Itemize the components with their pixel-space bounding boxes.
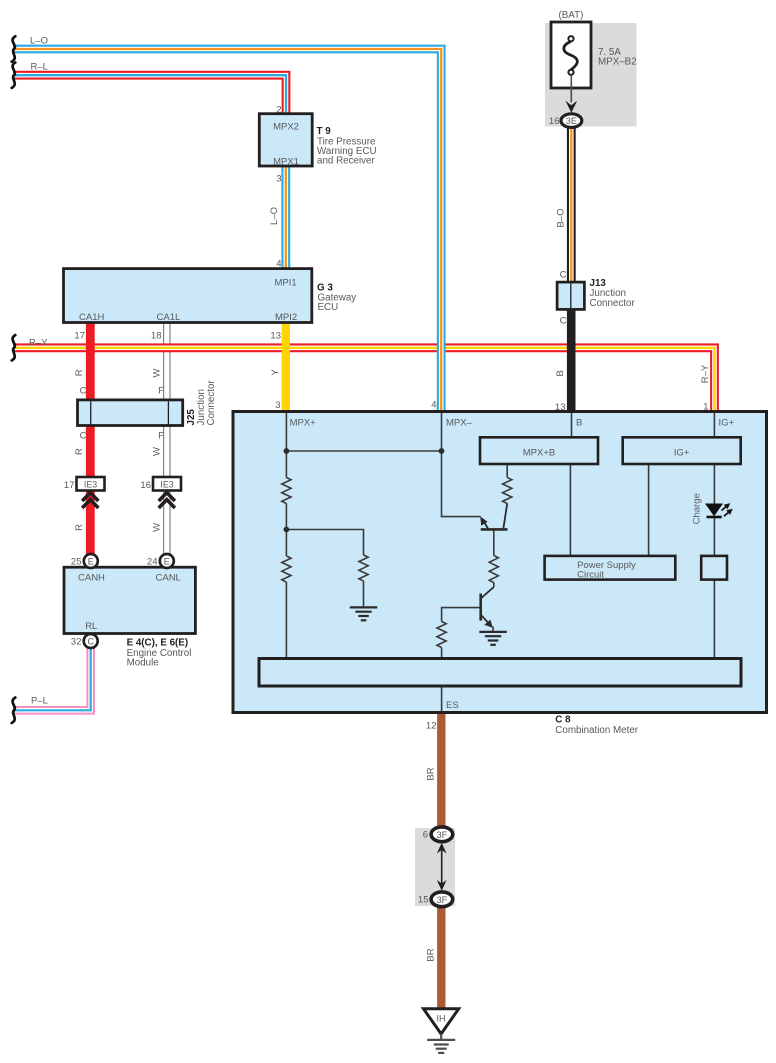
connector IE3 pin16 box: [153, 477, 181, 491]
svg-text:3F: 3F: [437, 895, 448, 905]
wire B from J13 to C8 pin13: [567, 309, 576, 414]
resistor R6 (Q2 base): [437, 622, 446, 648]
svg-text:Combination Meter: Combination Meter: [555, 725, 639, 736]
svg-text:3E: 3E: [566, 116, 577, 126]
arrow into connector 3E: [565, 101, 577, 113]
resistor R2 (MPX+ lower): [282, 556, 291, 582]
svg-text:CA1H: CA1H: [79, 312, 104, 323]
wire MPX+B to power supply: [569, 464, 571, 556]
wire BR from C8 ES pin12 to 3F pin6: [437, 712, 445, 829]
svg-text:BR: BR: [426, 948, 437, 961]
LED emission arrow 1: [722, 506, 728, 511]
wire L-O top horizontal to C8 MPX- pin4: [13, 49, 441, 413]
wire Q2 emitter to ground: [492, 627, 494, 632]
svg-text:IH: IH: [437, 1013, 446, 1023]
svg-text:J13: J13: [590, 278, 607, 289]
LED D1 charge triangle: [705, 504, 723, 517]
connector circle E pin24: [160, 554, 174, 568]
internal box power supply circuit: [545, 556, 676, 580]
continuation brace R-Y: [12, 335, 16, 360]
svg-text:MPI2: MPI2: [275, 312, 297, 323]
node MPX+ pin line: [285, 413, 287, 451]
svg-text:IG+: IG+: [674, 448, 690, 459]
svg-text:(BAT): (BAT): [559, 10, 584, 21]
svg-text:MPX1: MPX1: [273, 156, 299, 167]
junction connector J25 box: [78, 400, 183, 426]
resistor R3 (to ground): [359, 555, 368, 581]
connector oval 3F pin15: [431, 892, 453, 907]
wire Q1 collector chain: [493, 530, 495, 587]
svg-text:E 4(C), E 6(E): E 4(C), E 6(E): [127, 637, 189, 648]
svg-text:25: 25: [71, 557, 82, 568]
svg-text:3F: 3F: [437, 830, 448, 840]
wire R (CA1H) G3 pin17 to ECM pin25: [86, 322, 95, 555]
svg-text:13: 13: [270, 331, 281, 342]
fuse element symbol: [564, 36, 578, 75]
svg-text:MPX+B: MPX+B: [523, 448, 555, 459]
svg-text:C: C: [560, 316, 567, 327]
svg-text:B: B: [576, 418, 582, 429]
svg-text:R: R: [74, 524, 85, 531]
resistor R4 (Q1 emitter): [503, 478, 512, 504]
transistor Q2 (NPN): [481, 587, 494, 623]
svg-text:R: R: [74, 369, 85, 376]
svg-text:W: W: [152, 447, 163, 456]
svg-text:6: 6: [423, 829, 428, 840]
connector oval 3E pin16: [561, 114, 582, 128]
svg-text:CA1L: CA1L: [157, 312, 181, 323]
svg-text:CANL: CANL: [156, 573, 181, 584]
svg-text:E: E: [164, 556, 170, 566]
connector oval 3F pin6: [431, 827, 453, 842]
svg-text:RL: RL: [85, 621, 97, 632]
svg-text:E: E: [88, 556, 94, 566]
internal box IG+: [623, 437, 741, 464]
combination meter C8 box: [233, 412, 767, 713]
svg-text:3: 3: [276, 174, 281, 185]
svg-text:BR: BR: [426, 767, 437, 780]
wire MPX+B to Q1 emitter resistor: [506, 464, 508, 478]
wire W (CA1L) G3 pin18 to ECM pin24: [163, 322, 171, 555]
fuse output line: [570, 75, 572, 103]
svg-text:R–L: R–L: [31, 62, 48, 73]
svg-text:4: 4: [431, 400, 436, 411]
junction dot MPX-: [439, 448, 445, 454]
connector circle C pin32: [84, 634, 98, 648]
svg-text:18: 18: [151, 331, 162, 342]
J13 divider line: [570, 283, 572, 308]
svg-text:C: C: [87, 636, 94, 646]
chevrons below IE3 right: [159, 493, 175, 508]
svg-text:B: B: [555, 370, 566, 376]
svg-text:C: C: [80, 431, 87, 442]
junction connector J13 box: [557, 282, 584, 309]
svg-text:and Receiver: and Receiver: [317, 156, 375, 167]
wire Y from G3 pin13 to C8 MPX+ pin3: [282, 322, 290, 414]
svg-text:IE3: IE3: [160, 480, 173, 490]
svg-text:MPX+: MPX+: [290, 418, 317, 429]
ground IH stem and lines: [427, 1034, 455, 1053]
fuse box 7.5A MPX-B2: [551, 22, 591, 88]
svg-text:16: 16: [549, 116, 560, 127]
svg-text:MPI1: MPI1: [275, 278, 297, 289]
ground symbol G2: [479, 632, 507, 645]
continuation brace L-O: [12, 36, 16, 61]
junction dot MPX+: [284, 448, 290, 454]
connector circle E pin25: [84, 554, 98, 568]
svg-text:L–O: L–O: [30, 35, 48, 46]
wire R-Y horizontal to C8 IG+ pin1: [13, 348, 715, 413]
svg-text:24: 24: [147, 557, 158, 568]
svg-text:ECU: ECU: [318, 302, 339, 313]
wire MPX+ branch down: [285, 451, 287, 660]
svg-text:Connector: Connector: [590, 298, 636, 309]
svg-text:T 9: T 9: [317, 126, 332, 137]
resistor R5 (Q1 collector): [489, 556, 498, 583]
J25 divider lines: [91, 401, 169, 424]
wire P-L from ECM pin32 to left edge: [13, 648, 91, 711]
svg-text:13: 13: [555, 402, 566, 413]
wire BR from 3F pin15 to ground IH: [437, 906, 445, 1011]
wire node to right resistor: [286, 530, 363, 608]
wire IG+ box to power supply: [648, 464, 650, 556]
LED D1 cathode bar: [707, 516, 722, 519]
svg-text:16: 16: [140, 480, 151, 491]
svg-text:Circuit: Circuit: [577, 569, 604, 580]
wire R-L horizontal to T9 pin2: [13, 75, 286, 114]
svg-text:IE3: IE3: [84, 480, 97, 490]
svg-text:W: W: [152, 523, 163, 532]
wire B pin line: [571, 413, 573, 438]
fuse block gray background: [545, 23, 637, 127]
continuation brace P-L: [12, 698, 16, 723]
svg-text:Module: Module: [127, 658, 160, 669]
svg-text:R: R: [74, 448, 85, 455]
transistor Q1 (PNP): [481, 504, 508, 530]
svg-text:2: 2: [276, 105, 281, 116]
wire link MPX+ to MPX-: [286, 450, 441, 452]
svg-text:B–O: B–O: [556, 208, 567, 227]
wire IG+ pin line: [713, 413, 715, 504]
svg-text:Charge: Charge: [692, 493, 703, 524]
svg-text:IG+: IG+: [719, 418, 735, 429]
double arrow between 3F connectors: [441, 848, 443, 884]
node MPX- pin line: [442, 413, 481, 517]
svg-text:L–O: L–O: [269, 207, 280, 225]
svg-text:CANH: CANH: [78, 573, 105, 584]
svg-text:C: C: [80, 386, 87, 397]
resistor R1 (MPX+ upper): [282, 478, 291, 504]
svg-text:15: 15: [418, 894, 429, 905]
svg-text:17: 17: [64, 480, 75, 491]
3F connector gray background: [415, 828, 455, 906]
bus bar: [259, 659, 741, 687]
svg-text:R–Y: R–Y: [700, 364, 711, 383]
svg-text:17: 17: [74, 331, 85, 342]
svg-text:32: 32: [71, 637, 82, 648]
wire LED to square to bus: [713, 518, 715, 659]
svg-text:W: W: [152, 368, 163, 377]
ECU G3 box: [64, 269, 312, 323]
ground symbol G1: [350, 607, 378, 620]
svg-text:P–L: P–L: [31, 696, 48, 707]
internal square (resistor block): [701, 556, 727, 580]
ECU T9 box: [259, 114, 312, 166]
svg-text:12: 12: [426, 721, 437, 732]
svg-text:MPX–B2: MPX–B2: [598, 57, 637, 68]
wire L-O from T9 pin3 to G3 pin4: [281, 165, 290, 270]
svg-text:F: F: [158, 386, 164, 397]
ECM E4 box: [64, 567, 195, 633]
LED emission arrow 2: [724, 512, 730, 517]
junction dot MPX+ node: [284, 527, 290, 533]
wire ES pin line: [441, 686, 443, 712]
svg-text:Y: Y: [270, 369, 281, 376]
connector IE3 pin17 box: [77, 477, 105, 491]
svg-text:3: 3: [275, 400, 280, 411]
svg-text:Connector: Connector: [206, 380, 217, 426]
wire B-O from fuse 3E to J13: [567, 126, 576, 283]
svg-text:1: 1: [703, 402, 708, 413]
internal box MPX+B: [480, 437, 598, 464]
svg-text:C: C: [560, 270, 567, 281]
svg-text:F: F: [158, 431, 164, 442]
svg-text:R–Y: R–Y: [29, 338, 48, 349]
svg-text:MPX–: MPX–: [446, 418, 473, 429]
wire Q2 base: [442, 608, 481, 660]
continuation brace R-L: [12, 63, 16, 88]
ground IH triangle: [424, 1009, 459, 1034]
chevrons below IE3 left: [82, 493, 98, 508]
svg-text:4: 4: [276, 259, 281, 270]
svg-text:MPX2: MPX2: [273, 122, 299, 133]
svg-text:ES: ES: [446, 700, 459, 711]
